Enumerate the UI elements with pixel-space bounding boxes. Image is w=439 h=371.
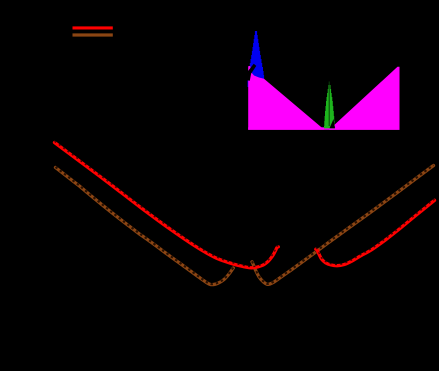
inset: black notch at green spike base: [330, 119, 336, 128]
legend line red: [73, 26, 113, 29]
inset: magenta left triangle: [248, 66, 324, 130]
red curve left branch: [55, 143, 279, 268]
red curve left branch dark dash overlay: [55, 141, 279, 266]
brown curve right branch dark dash overlay: [252, 165, 434, 284]
inset: green spike: [324, 81, 335, 129]
red curve right branch dark dash overlay: [316, 199, 435, 264]
brown curve left branch dark dash overlay: [56, 167, 234, 284]
inset: magenta right triangle: [329, 67, 400, 130]
red curve right branch: [316, 200, 435, 265]
legend line brown: [73, 33, 113, 36]
brown curve left branch: [56, 168, 234, 285]
inset: blue spike: [248, 28, 265, 88]
inset: green spike dark center line: [328, 82, 330, 127]
brown curve right branch: [252, 166, 434, 285]
inset: magenta bottom strip: [248, 127, 399, 130]
inset: black sliver between blue spike and magenta apex: [247, 64, 257, 81]
